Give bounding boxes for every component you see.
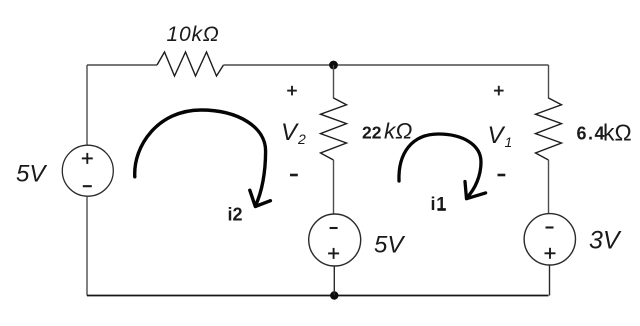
svg-text:kΩ: kΩ bbox=[603, 120, 632, 146]
svg-text:V1: V1 bbox=[488, 122, 514, 150]
wire middle vertical lower bbox=[333, 266, 335, 296]
resistor R2 22kOhm zigzag bbox=[321, 98, 347, 160]
plus label above V2 bbox=[287, 86, 297, 96]
minus label below V2 bbox=[290, 174, 298, 177]
wire top-right segment bbox=[224, 64, 549, 66]
wire right vertical upper bbox=[548, 65, 550, 99]
plus mark inside right source bbox=[545, 248, 556, 259]
svg-text:kΩ: kΩ bbox=[384, 119, 412, 144]
voltage source 5V left circle bbox=[62, 145, 113, 196]
svg-text:5V: 5V bbox=[16, 160, 47, 187]
wire middle vertical upper bbox=[333, 65, 335, 99]
plus label above V1 bbox=[494, 86, 504, 96]
svg-text:i2: i2 bbox=[228, 205, 243, 225]
node A top junction dot bbox=[329, 61, 338, 70]
minus label below V1 bbox=[498, 174, 506, 177]
resistor R1 10kOhm zigzag bbox=[157, 52, 224, 76]
mesh current arrow i2 arc bbox=[135, 110, 266, 206]
wire top-left segment bbox=[87, 64, 157, 66]
arrowhead of i2 bbox=[250, 190, 271, 206]
voltage source 5V middle circle bbox=[309, 214, 361, 266]
arrowhead of i1 bbox=[465, 182, 486, 199]
minus mark inside right source bbox=[546, 226, 554, 228]
wire bottom bbox=[87, 295, 549, 297]
svg-text:22: 22 bbox=[362, 123, 382, 143]
svg-text:i1: i1 bbox=[431, 194, 448, 214]
voltage source 3V right circle bbox=[524, 214, 575, 265]
plus mark inside middle source bbox=[328, 248, 339, 259]
wire middle vertical mid bbox=[333, 160, 335, 214]
svg-text:3V: 3V bbox=[589, 227, 622, 255]
svg-text:10kΩ: 10kΩ bbox=[167, 23, 220, 46]
plus mark inside left source bbox=[82, 153, 93, 164]
resistor R3 6.4kOhm zigzag bbox=[536, 98, 562, 160]
minus mark inside left source bbox=[83, 185, 92, 187]
wire left vertical lower bbox=[86, 196, 88, 295]
wire right vertical mid bbox=[548, 160, 550, 214]
svg-text:V2: V2 bbox=[281, 119, 307, 147]
mesh current arrow i1 arc bbox=[399, 134, 481, 198]
svg-text:6.4: 6.4 bbox=[577, 124, 607, 144]
svg-text:5V: 5V bbox=[374, 232, 405, 259]
wire left vertical upper bbox=[86, 65, 88, 146]
node B bottom junction dot bbox=[330, 291, 338, 299]
minus mark inside middle source bbox=[330, 227, 338, 229]
wire right vertical lower bbox=[549, 265, 551, 296]
